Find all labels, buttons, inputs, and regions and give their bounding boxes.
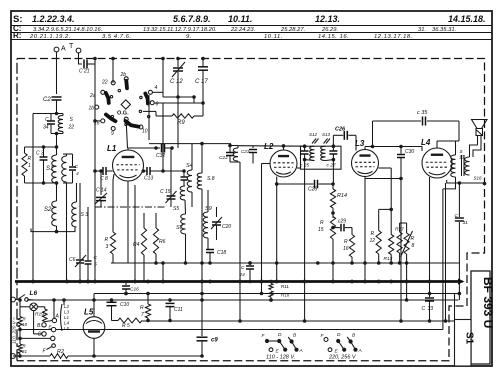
resistor R19 [35,307,52,322]
svg-text:S7: S7 [176,225,184,231]
coil S3 [72,183,89,227]
svg-text:L4: L4 [421,138,431,147]
resistor R21 [18,327,28,356]
svg-text:C: C [455,213,459,219]
wire transformer to B [443,177,456,189]
svg-text:7: 7 [141,312,144,318]
switch wiring left stubs [93,95,149,140]
svg-text:S5: S5 [173,206,179,212]
resistor R14 [330,184,347,218]
svg-text:31.: 31. [418,27,426,33]
svg-text:12.13.: 12.13. [315,14,340,24]
terminal F heater [18,336,55,340]
resistor R6 [153,213,165,265]
resistor R18 [18,317,28,332]
capacitor C2 [43,97,62,114]
rail y321 [142,319,455,323]
capacitor C9 [197,300,219,358]
vertical x202 [200,263,204,300]
rail y329.5 [20,329,443,331]
svg-text:C6: C6 [69,257,76,263]
wire speaker to transformer [470,136,482,158]
coil S8 [197,144,215,263]
svg-text:13.32.15.11.12.7.9.17.18.20.: 13.32.15.11.12.7.9.17.18.20. [143,27,217,33]
capacitor C15 [160,148,177,207]
svg-text:C 21: C 21 [79,69,90,75]
svg-text:C22: C22 [219,155,228,161]
resistor R10 [269,291,290,302]
tube L4 [421,138,452,178]
wire screen feed [400,222,407,224]
switch L6 [11,290,38,302]
wire S2/S3 bottom tie [31,228,75,232]
svg-text:L1: L1 [107,144,117,153]
svg-text:1: 1 [28,163,31,169]
svg-text:R: R [105,237,109,243]
svg-text:31: 31 [463,220,469,226]
capacitor C30 [365,147,414,322]
svg-text:R19: R19 [35,312,44,318]
wire C4 tank down [66,183,68,282]
capacitor C18 [206,249,226,263]
variable capacitor C12 [170,59,185,98]
switch contact labels [89,72,159,137]
svg-text:C 14: C 14 [96,188,107,194]
svg-text:L6: L6 [30,290,38,297]
svg-text:C 3: C 3 [36,151,44,157]
svg-text:L3: L3 [64,310,70,315]
switch wiring right [143,92,205,116]
svg-text:L4: L4 [64,321,70,326]
capacitor C31 [455,183,469,300]
svg-text:A: A [299,348,303,354]
svg-text:C: C [422,306,426,312]
svg-text:L5: L5 [84,308,94,317]
coil C4 tank [62,154,79,183]
svg-text:T: T [69,43,74,50]
coil S4 [186,144,193,207]
terminal T [69,43,81,53]
node antenna tank top [33,112,58,116]
tank C22 [219,144,240,321]
resistor R3 [105,213,116,263]
rail y300 [27,298,459,302]
resistor R2 [13,349,202,358]
svg-text:R4: R4 [133,242,140,248]
svg-text:R:: R: [13,31,21,40]
rail y263 [111,261,459,265]
wire heater feed [63,300,65,305]
pilot lamp [20,303,45,311]
capacitor C3 [36,145,48,185]
svg-text:S16: S16 [474,176,483,181]
svg-text:C32: C32 [156,153,165,159]
svg-text:1.2.22.3.4.: 1.2.22.3.4. [32,14,75,24]
svg-text:C20: C20 [222,224,231,230]
svg-text:D: D [38,332,42,338]
tube L2 [264,142,297,177]
svg-text:110 - 128 V.: 110 - 128 V. [266,355,295,361]
tube L3 [352,139,379,177]
svg-text:C13: C13 [144,176,153,182]
svg-text:C10: C10 [120,302,129,308]
svg-text:A: A [61,46,66,53]
terminal B heater [37,323,46,329]
capacitor C32 [128,144,174,160]
terminal D heater [34,311,47,338]
wire L2 right pin [297,167,301,169]
svg-text:S2: S2 [44,207,52,213]
svg-text:25.28.27.: 25.28.27. [280,27,305,33]
switch blade F [43,344,56,355]
terminal A [54,46,66,53]
svg-text:A: A [358,348,362,354]
svg-text:S9: S9 [205,206,212,212]
resistor R5 [112,318,143,329]
terminal E heater [49,325,56,332]
svg-text:5.6.7.8.9.: 5.6.7.8.9. [173,14,211,24]
wire L4 grid [421,147,423,152]
svg-text:21: 21 [21,349,28,354]
wire left vertical bus [32,114,34,282]
wire A down [56,52,58,94]
vertical x135 [134,185,136,282]
svg-text:C 15: C 15 [160,189,171,195]
wire T branch lower [94,171,96,282]
svg-text:c 27: c 27 [327,163,336,169]
wire L2 plate [238,144,305,150]
svg-text:R: R [344,239,348,245]
svg-text:3: 3 [106,244,109,250]
label box S1 [455,320,475,367]
capacitor C17 [195,59,208,105]
svg-text:C2: C2 [43,97,51,103]
capacitor C21 [79,53,96,75]
svg-text:12.13.17.18.: 12.13.17.18. [374,34,413,40]
svg-text:A: A [55,314,60,320]
capacitor C6 trimmer [69,183,86,283]
model label box BF 393 U [471,271,495,364]
svg-text:C: C [241,265,245,271]
svg-text:14.15.18.: 14.15.18. [448,14,486,24]
vertical x163b [162,263,164,282]
svg-text:20.21.1.19.2.: 20.21.1.19.2. [29,34,71,40]
svg-text:C 17: C 17 [195,79,208,85]
svg-text:3.5 4.7.6.: 3.5 4.7.6. [102,34,132,40]
resistor R16 [343,228,355,265]
svg-text:16: 16 [343,246,349,252]
svg-text:R: R [371,231,375,237]
svg-text:110. 220 V ~: 110. 220 V ~ [12,317,18,344]
svg-text:R 5: R 5 [122,323,130,329]
svg-text:R14: R14 [337,193,347,199]
svg-text:c 35: c 35 [417,110,428,116]
svg-text:BF 393 U: BF 393 U [481,277,495,328]
svg-text:36.35.31.: 36.35.31. [432,27,456,33]
capacitor C27 [327,146,338,184]
resistor R1 [22,147,57,183]
svg-text:24: 24 [239,272,246,278]
IF transformer S12 S13 [301,132,342,169]
rotary wave-band switch O.G. [95,77,155,148]
HT bus thick [15,279,465,285]
svg-text:R6: R6 [159,239,166,245]
capacitor C28 [275,180,335,193]
capacitor C29 [331,219,352,232]
svg-text:18: 18 [22,322,28,327]
svg-text:220, 256 V: 220, 256 V [328,355,357,361]
capacitor C24 [239,261,255,283]
svg-text:S1: S1 [464,332,475,345]
tube L1 [107,144,144,181]
table row C [13,24,456,33]
coil S7 [176,214,186,263]
svg-text:34: 34 [43,125,49,131]
svg-text:R: R [140,305,144,311]
svg-text:R13: R13 [384,256,393,262]
svg-text:22: 22 [101,80,108,86]
svg-text:9: 9 [111,131,114,137]
svg-text:B.: B. [37,323,42,329]
wire switch feed vertical [112,59,114,84]
coil S2 [44,183,58,233]
table row S [13,14,486,25]
wire x178 down [177,97,179,148]
svg-text:R: R [411,236,415,242]
svg-text:S.8: S.8 [207,176,215,182]
capacitor C16 [122,282,139,296]
table row R [13,31,413,40]
resistor R12 [370,208,394,265]
wire L3 right pin [379,168,392,235]
capacitor C25 [300,146,309,321]
potentiometer R8 [401,223,415,300]
switch label O.G. [117,111,129,117]
svg-text:L2: L2 [64,304,70,309]
svg-text:S4: S4 [186,163,193,169]
coil S5 branch [173,171,188,214]
svg-text:S1: S1 [46,166,53,172]
chassis dashed border [17,59,485,361]
svg-text:L3: L3 [355,139,365,148]
svg-text:S13: S13 [322,132,331,137]
svg-text:C: C [75,164,79,170]
svg-text:6: 6 [156,102,159,108]
svg-text:10.11.: 10.11. [264,34,283,40]
resistor R13 [384,235,394,265]
terminal A heater [52,314,59,323]
wire top rail y143.6 [149,142,231,146]
wire L4 cathode [429,177,431,294]
capacitor C11 [166,300,184,322]
svg-text:22: 22 [68,125,75,131]
svg-text:C16: C16 [130,287,139,293]
svg-text:R17: R17 [395,227,404,233]
resistor R7 [140,294,151,322]
svg-text:10.11.: 10.11. [228,14,252,24]
wire L1 left pin [113,174,114,213]
wire L1 cathode [127,182,129,264]
svg-text:8: 8 [412,243,415,249]
svg-text:C11: C11 [174,307,183,313]
svg-text:15: 15 [318,227,324,233]
loudspeaker [472,120,488,136]
capacitor C10 [107,300,130,321]
mains terminal bottom [11,354,16,359]
svg-text:10: 10 [142,129,148,135]
svg-text:R11: R11 [281,284,289,289]
svg-text:C23: C23 [241,149,250,154]
svg-text:R: R [320,220,324,226]
svg-text:2b: 2b [120,72,127,78]
svg-text:14.15. 16.: 14.15. 16. [318,34,349,40]
svg-text:L1: L1 [64,315,70,320]
capacitor C33 [422,294,435,322]
heater chain list [61,304,70,331]
svg-text:1b: 1b [89,106,95,112]
svg-text:S12: S12 [309,132,318,137]
coil S9 [203,190,212,249]
wire L3 cathode [363,177,367,282]
svg-text:C: C [45,117,49,123]
coil S1 [46,155,58,185]
svg-text:c9: c9 [211,338,218,344]
svg-text:9.: 9. [186,34,192,40]
wire S1 feed [454,294,456,320]
resistor R15 [318,217,336,282]
chassis connection dot [447,180,487,185]
capacitor C13 [142,167,186,182]
svg-text:26.29.: 26.29. [321,27,338,33]
svg-text:O.G.: O.G. [117,111,129,117]
svg-text:D: D [337,332,341,338]
svg-text:4: 4 [155,85,158,91]
svg-text:R: R [28,156,32,162]
svg-text:33: 33 [428,306,434,312]
voltage selector 220-256V [321,332,362,361]
resistor R4 [133,213,147,282]
svg-text:L5: L5 [64,326,70,331]
wire L2 left pin [260,164,270,294]
rail y293.5 [94,292,459,296]
wire L3 plate [365,145,422,150]
mains voltage text [12,317,18,344]
svg-text:S 3: S 3 [81,212,89,218]
svg-text:C30: C30 [405,149,414,155]
svg-text:2a: 2a [89,93,96,99]
resistor R9 [156,103,203,126]
vertical wire x163 [162,59,164,172]
capacitor C8 [93,167,113,182]
svg-text:12: 12 [370,238,376,244]
svg-text:22.24.23.: 22.24.23. [230,27,255,33]
gang chain line [95,206,166,208]
capacitor C26 [333,127,356,151]
svg-text:S: S [460,149,463,154]
junction dots top rail [93,57,205,61]
svg-text:C 12: C 12 [170,79,183,85]
wire L2 cathode [275,177,279,282]
svg-text:R2: R2 [57,349,64,355]
capacitor C5 [85,207,98,283]
wire mains vertical [18,298,22,316]
capacitor C34 / coil S22 tank [43,114,74,136]
svg-text:D: D [278,332,282,338]
output transformer S10/S16 [451,149,482,181]
parts table grid [11,26,492,40]
variable capacitor C14 [95,171,107,207]
wire terminal A feed [53,300,55,318]
svg-text:3.34.2.9.6.5.21.14.8.10.16.: 3.34.2.9.6.5.21.14.8.10.16. [33,27,102,33]
svg-text:L2: L2 [264,142,274,151]
resistor R17 [395,223,404,265]
vertical wire x444 [443,183,446,330]
svg-text:C28: C28 [308,187,317,193]
wire tank to S1 [55,134,59,156]
svg-text:4: 4 [76,171,79,177]
resistor R11 [267,280,290,290]
capacitor C35 feedback [373,110,460,147]
svg-text:C18: C18 [217,250,226,256]
tube L5 rectifier [83,294,105,357]
voltage selector 110-128V [262,332,303,361]
svg-text:c29: c29 [338,219,346,225]
variable capacitor C20 [211,207,231,240]
capacitor C23 [241,146,257,164]
svg-text:C26: C26 [335,127,346,133]
wire T branch vertical [94,59,96,172]
wire L4 plate [437,141,459,155]
